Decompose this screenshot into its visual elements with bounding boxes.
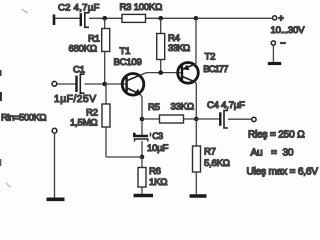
wire input to C1 [57, 83, 76, 85]
transistor T2 [178, 63, 199, 84]
node H (R2 / R6 / C3 junction) [140, 155, 145, 160]
svg-text:BC109: BC109 [114, 57, 142, 68]
svg-text:10...30V: 10...30V [271, 25, 306, 36]
svg-text:+: + [278, 13, 283, 23]
resistor R4 [157, 18, 165, 72]
node A (R1/R3 junction) [102, 16, 107, 21]
svg-text:Uieş max = 6,6V: Uieş max = 6,6V [247, 167, 319, 178]
svg-text:33KΩ: 33KΩ [168, 43, 190, 54]
svg-text:30: 30 [283, 148, 294, 159]
input terminal (upper) [52, 81, 57, 86]
wire C4 to output terminal [228, 118, 252, 120]
wire C2 to node A [89, 17, 122, 19]
node F (T1 emitter / R5 left / C3 top) [140, 117, 145, 122]
resistor R6 [138, 157, 146, 194]
transistor T1 [122, 74, 144, 96]
resistor R5 [142, 115, 196, 123]
scan speck bottom-left [6, 183, 11, 188]
svg-text:Rieş = 250 Ω: Rieş = 250 Ω [248, 130, 305, 141]
svg-text:10µF: 10µF [147, 143, 168, 154]
svg-text:1KΩ: 1KΩ [149, 177, 167, 188]
node E (R4 bottom / T2 base) [158, 70, 163, 75]
input terminal bar (top-left) [53, 15, 56, 26]
resistor R1 [102, 18, 110, 84]
svg-text:BC177: BC177 [203, 64, 228, 75]
node B (R4 top) [158, 16, 163, 21]
svg-text:T1: T1 [120, 46, 131, 57]
svg-text:C1: C1 [73, 65, 85, 76]
svg-text:–: – [280, 38, 286, 49]
wire top rail: terminal to C2 [55, 17, 80, 19]
svg-text:C4 4,7µF: C4 4,7µF [207, 100, 245, 111]
svg-text:R7: R7 [204, 147, 216, 158]
svg-text:Au: Au [251, 148, 263, 159]
output terminal [252, 117, 256, 121]
wire T2 collector down to output node [195, 82, 196, 119]
resistor R2 [102, 84, 142, 157]
resistor R7 [193, 119, 201, 195]
svg-text:=: = [271, 148, 277, 159]
ground (R7) [190, 194, 207, 197]
svg-text:C2 4,7µF: C2 4,7µF [58, 3, 100, 14]
scan speck top-left [22, 9, 28, 13]
svg-text:5,6KΩ: 5,6KΩ [204, 158, 230, 169]
wire R3 to node B [146, 17, 197, 19]
wire lower input down [54, 133, 56, 198]
svg-text:R5: R5 [148, 102, 160, 113]
svg-text:Rin=500KΩ: Rin=500KΩ [1, 113, 46, 124]
scan mark left edge 1 [0, 70, 2, 76]
scan mark left edge 2 [0, 92, 2, 101]
ground (input) [47, 198, 65, 202]
node D (base of T1, R1/R2) [102, 82, 107, 87]
wire rail to + terminal [196, 17, 273, 19]
capacitor C1 [77, 74, 85, 93]
svg-text:R6: R6 [149, 166, 161, 177]
wire T1 emitter down to R5 node [140, 94, 142, 119]
node C (T2 emitter tap) [194, 16, 199, 21]
svg-text:C3: C3 [152, 131, 163, 141]
wire T1 collector to collector rail [141, 73, 182, 75]
svg-text:1µF/25V: 1µF/25V [54, 94, 97, 105]
svg-text:33KΩ: 33KΩ [171, 102, 194, 113]
wire C1 to base node [85, 83, 127, 85]
wire T2 emitter up to rail [195, 18, 196, 64]
capacitor C2 [81, 13, 89, 27]
svg-text:T2: T2 [205, 52, 216, 63]
wire - terminal down [272, 45, 274, 62]
scan mark left edge 3 [0, 159, 2, 166]
wire node G to C4 [196, 118, 219, 120]
supply - terminal [271, 41, 275, 45]
node G (output node) [194, 117, 199, 122]
input terminal (lower) [52, 128, 57, 133]
capacitor C3 [134, 119, 150, 158]
capacitor C4 [220, 111, 228, 129]
supply + terminal [273, 16, 277, 20]
svg-text:1,5MΩ: 1,5MΩ [70, 118, 97, 129]
svg-text:680KΩ: 680KΩ [69, 44, 97, 55]
ground (supply) [268, 62, 281, 65]
svg-text:R3 100KΩ: R3 100KΩ [120, 2, 163, 13]
ground (R6) [134, 194, 154, 197]
resistor R3 [122, 14, 146, 22]
